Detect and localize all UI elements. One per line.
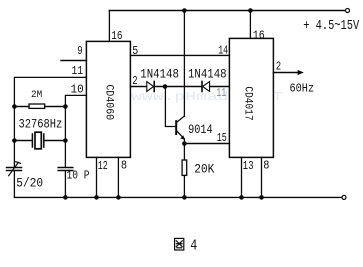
wire pin13 riser bbox=[241, 157, 243, 197]
svg-text:32768Hz: 32768Hz bbox=[19, 117, 63, 132]
node A dot bbox=[163, 84, 168, 89]
svg-text:16: 16 bbox=[253, 28, 265, 42]
wire below 10P bbox=[64, 171, 66, 197]
svg-text:16: 16 bbox=[111, 29, 122, 43]
wire below 5/20 bbox=[13, 171, 15, 197]
svg-text:14: 14 bbox=[218, 44, 228, 58]
wire crystal right bbox=[45, 140, 66, 142]
capacitor C1 5/20 trimmer plates bbox=[7, 167, 22, 169]
crystal left plate bbox=[31, 134, 33, 147]
terminal bottom open circle bbox=[342, 195, 346, 199]
crystal right plate bbox=[43, 134, 45, 147]
resistor R2 20K box bbox=[182, 160, 187, 175]
svg-text:1N4148: 1N4148 bbox=[140, 66, 179, 81]
diode D1 1N4148 bbox=[147, 82, 154, 92]
node dot emitter bbox=[182, 141, 187, 146]
wire pin12 riser bbox=[96, 157, 98, 197]
transistor Q1 9014 base bar bbox=[175, 121, 177, 134]
node dot 2M right bbox=[63, 104, 68, 109]
wire pin8 riser U1 bbox=[117, 157, 119, 197]
terminal V+ open circle bbox=[346, 9, 350, 13]
wire CD4017 pin16 riser bbox=[249, 11, 251, 39]
IC U2 CD4017 box bbox=[229, 38, 273, 157]
svg-text:12: 12 bbox=[98, 159, 108, 173]
collector diagonal bbox=[177, 116, 185, 122]
emitter arrowhead bbox=[181, 136, 185, 139]
diode D2 1N4148 bbox=[201, 82, 203, 92]
svg-text:15: 15 bbox=[217, 131, 227, 145]
wire node A to base bbox=[165, 87, 175, 127]
svg-text:4: 4 bbox=[190, 237, 197, 254]
svg-text:8: 8 bbox=[121, 158, 127, 172]
node junction top rail x184 bbox=[182, 8, 187, 13]
junction bottom rail pin13 bbox=[239, 195, 244, 200]
svg-text:11: 11 bbox=[72, 64, 84, 78]
caption glyph tu bbox=[175, 238, 184, 250]
wire pin9 stub bbox=[61, 60, 86, 62]
svg-text:2M: 2M bbox=[31, 89, 42, 101]
wire pin10 to right column bbox=[65, 95, 86, 167]
wire CD4060 pin16 riser bbox=[108, 11, 110, 42]
svg-text:9014: 9014 bbox=[188, 122, 213, 137]
svg-text:5: 5 bbox=[132, 44, 138, 58]
IC U1 CD4060 box bbox=[86, 41, 130, 157]
wire pin2 U2 output bbox=[273, 72, 298, 74]
wire V+ vertical to transistor collector bbox=[183, 11, 185, 117]
svg-text:11: 11 bbox=[216, 86, 226, 100]
svg-text:CD4060: CD4060 bbox=[103, 85, 115, 121]
junction bottom rail pin8 U1 bbox=[116, 195, 121, 200]
output arrowhead bbox=[298, 70, 304, 75]
node junction top rail x250 bbox=[248, 8, 253, 13]
wire emitter down to resistor bbox=[183, 139, 185, 160]
svg-text:2: 2 bbox=[276, 60, 281, 74]
node dot crystal left bbox=[12, 138, 17, 143]
wire crystal left bbox=[14, 140, 31, 142]
svg-text:20K: 20K bbox=[194, 162, 214, 177]
crystal Y1 box bbox=[35, 132, 41, 149]
junction bottom rail 10P bbox=[63, 195, 68, 200]
svg-text:5/20: 5/20 bbox=[16, 176, 43, 191]
wire D2 to pin11 U2 bbox=[210, 86, 230, 88]
svg-text:+ 4.5~15V: + 4.5~15V bbox=[303, 19, 360, 34]
wire 2M right bbox=[45, 106, 66, 108]
svg-text:10 P: 10 P bbox=[67, 168, 90, 182]
wire 2M left bbox=[14, 106, 29, 108]
svg-text:9: 9 bbox=[77, 44, 82, 58]
svg-text:CD4017: CD4017 bbox=[242, 86, 254, 120]
junction bottom rail 20K bbox=[182, 195, 187, 200]
svg-text:2: 2 bbox=[132, 74, 137, 88]
emitter diagonal bbox=[177, 131, 185, 139]
wire 20K to rail bbox=[183, 175, 185, 197]
wire pin2 U1 to diode row bbox=[130, 86, 146, 88]
junction bottom rail pin8 U2 bbox=[259, 195, 264, 200]
svg-text:60Hz: 60Hz bbox=[290, 82, 315, 95]
node dot crystal right bbox=[63, 138, 68, 143]
wire emitter node to pin15 bbox=[184, 143, 229, 145]
wire D1 to D2 bbox=[155, 86, 202, 88]
wire pin11 to left column bbox=[14, 77, 86, 166]
resistor R1 2M box bbox=[29, 104, 45, 108]
wire pin8 riser U2 bbox=[261, 157, 263, 197]
svg-text:13: 13 bbox=[243, 159, 254, 173]
svg-text:1N4148: 1N4148 bbox=[188, 66, 227, 81]
junction bottom rail pin12 bbox=[94, 195, 99, 200]
wire pin5 to pin14 bbox=[130, 54, 229, 56]
trimmer arrow bbox=[9, 162, 19, 175]
svg-text:8: 8 bbox=[263, 158, 269, 172]
wire bottom rail bbox=[14, 196, 342, 198]
svg-text:10: 10 bbox=[71, 82, 84, 96]
capacitor C2 10P plates bbox=[58, 167, 73, 169]
wire top rail V+ bbox=[109, 10, 345, 12]
node dot 2M left bbox=[12, 104, 17, 109]
